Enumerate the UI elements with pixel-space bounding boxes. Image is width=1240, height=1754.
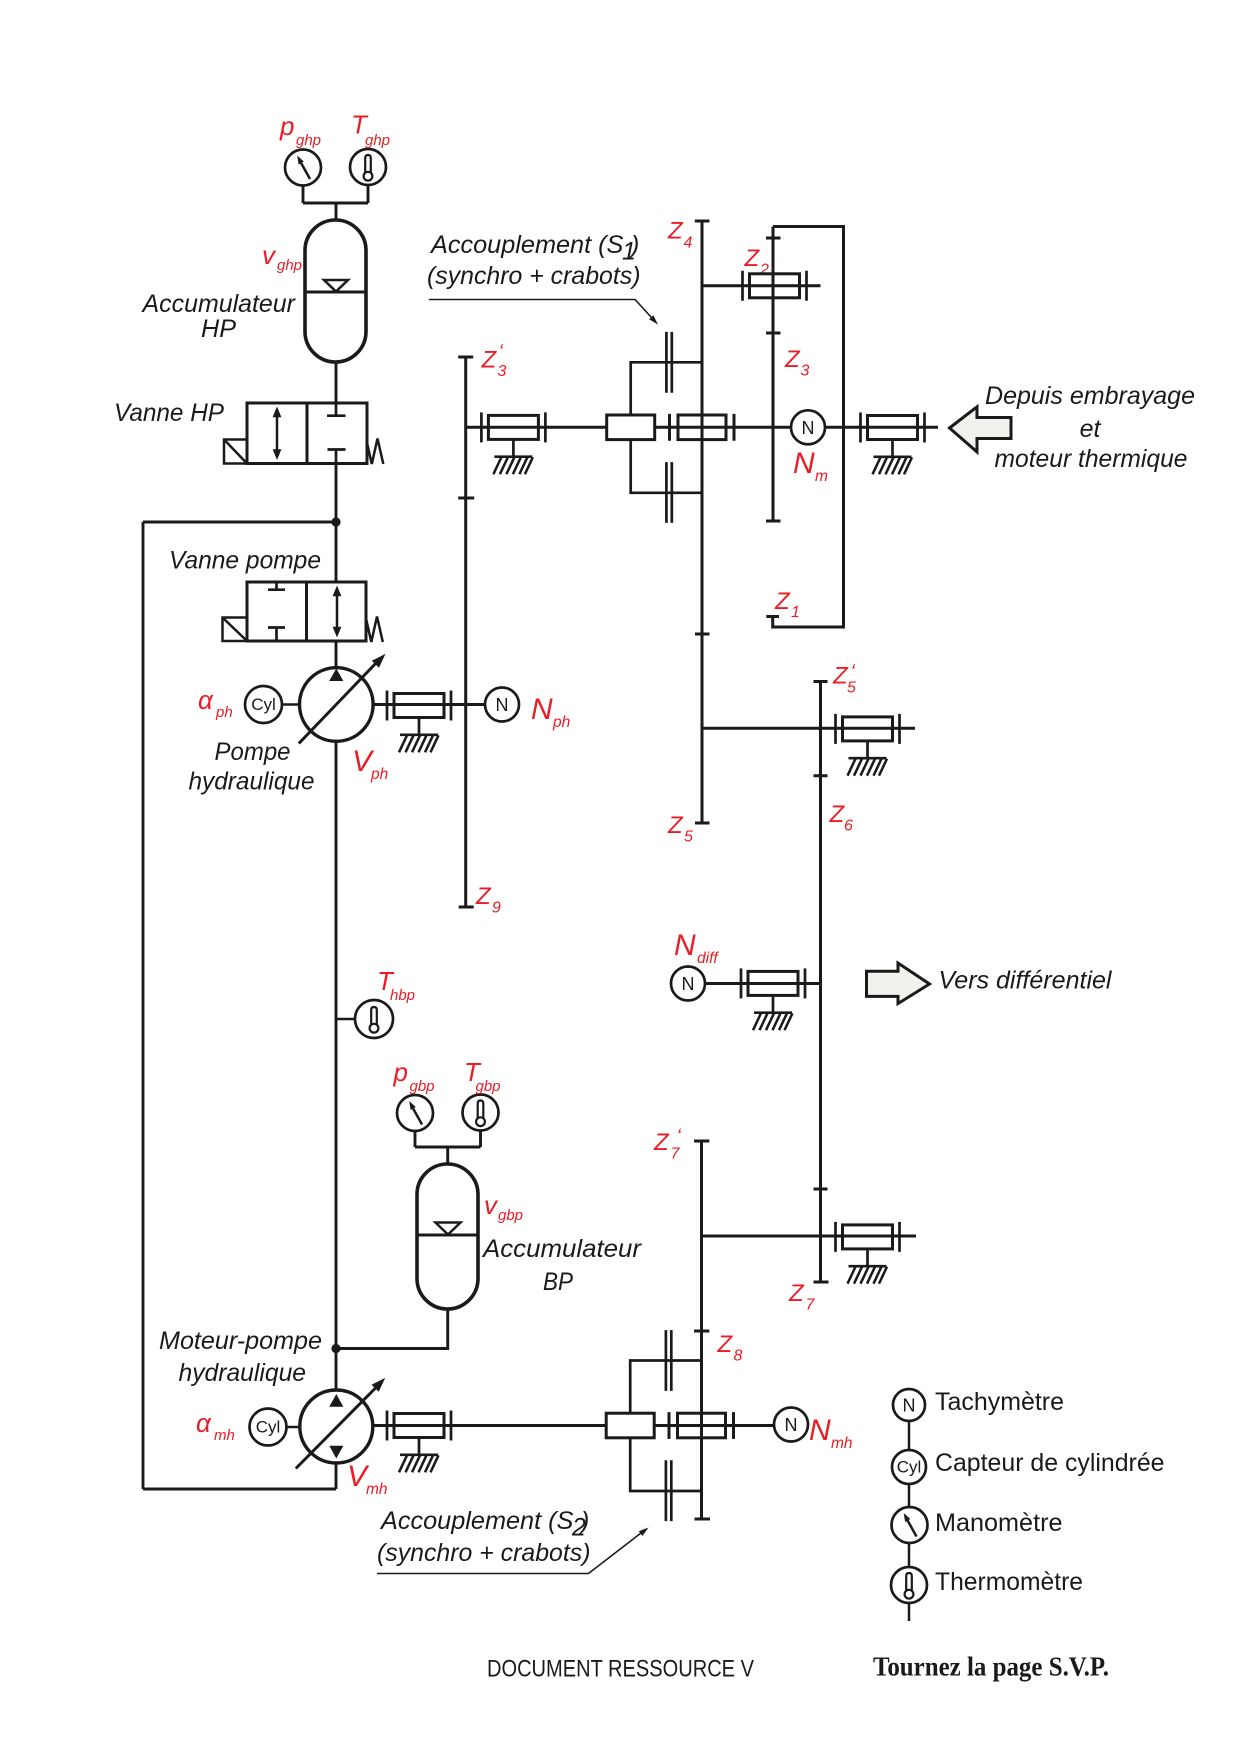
svg-text:Z: Z [744,245,761,272]
wire bypass left vertical [142,522,145,1489]
svg-text:Z: Z [475,883,492,910]
shaft input left segment [466,426,607,429]
svg-text:(synchro + crabots): (synchro + crabots) [427,262,641,290]
tachometer N_diff [671,929,719,1001]
svg-text:6: 6 [844,818,853,835]
bearing input right [861,413,925,443]
svg-text:N: N [809,1414,831,1447]
shaft through S1 to N_m [655,426,792,429]
legend sensor Cyl [892,1449,1165,1484]
svg-text:‘: ‘ [499,341,504,363]
svg-text:ghp: ghp [365,132,390,149]
svg-text:Moteur-pompe: Moteur-pompe [159,1327,322,1355]
svg-text:mh: mh [366,1481,388,1498]
ground input left bearing [493,440,533,475]
accumulator BP v_gbp [417,1164,643,1309]
arrow input Depuis embrayage [950,382,1196,473]
thermometer T_gbp [463,1057,501,1131]
accumulator HP v_ghp [141,220,366,362]
svg-text:moteur thermique: moteur thermique [995,445,1188,473]
pump Pompe hydraulique V_ph [189,654,389,796]
bearing pump shaft [387,691,451,721]
svg-text:2: 2 [759,262,769,279]
svg-text:m: m [815,468,828,485]
svg-text:Accumulateur: Accumulateur [481,1235,643,1263]
svg-text:N: N [785,1415,798,1435]
svg-text:Vanne HP: Vanne HP [114,399,224,427]
wire junction to Vanne pompe [335,522,338,582]
svg-text:Tournez la page S.V.P.: Tournez la page S.V.P. [873,1651,1109,1682]
svg-text:Accouplement (S: Accouplement (S [429,231,624,259]
svg-text:Z: Z [667,218,684,245]
svg-text:Cyl: Cyl [897,1458,922,1477]
svg-text:8: 8 [734,1348,743,1365]
svg-text:N: N [674,929,696,962]
svg-text:mh: mh [831,1435,853,1452]
svg-text:5: 5 [684,829,693,846]
gear line Z2 Z3 [744,227,810,522]
wire gauges to accumulator BP [415,1131,481,1165]
coupling S1 synchro crabots [607,332,734,523]
svg-text:v: v [484,1190,499,1220]
svg-text:ph: ph [552,714,570,731]
svg-text:gbp: gbp [498,1207,523,1224]
svg-text:Z: Z [829,801,846,828]
coupling S2 synchro crabots [606,1330,733,1521]
svg-text:1: 1 [791,604,800,621]
svg-text:Z: Z [667,812,684,839]
gear Z1 bracket [766,227,843,628]
svg-text:p: p [279,111,294,141]
wire accumulator BP to junction [336,1309,448,1349]
svg-text:N: N [682,974,695,994]
svg-text:Accouplement (S: Accouplement (S [379,1507,574,1535]
svg-text:Z: Z [784,346,801,373]
svg-text:Z: Z [788,1280,805,1307]
wire motor bottom port [335,1463,338,1489]
shaft motor to S2 [373,1424,606,1427]
ground Z7 bearing [848,1249,888,1284]
legend tachometer [893,1388,1064,1421]
svg-text:Z: Z [481,347,498,374]
motor-pump Moteur-pompe hydraulique V_mh [159,1327,388,1498]
wire gauges to accumulator HP [303,185,368,220]
svg-text:Thermomètre: Thermomètre [935,1568,1083,1596]
svg-text:Vanne pompe: Vanne pompe [169,547,321,575]
svg-text:Z: Z [774,588,791,615]
shaft Z5p level [702,727,915,730]
svg-text:Pompe: Pompe [215,738,291,766]
svg-text:Cyl: Cyl [256,1418,281,1437]
thermometer T_hbp [336,966,415,1038]
tachometer N_m [791,410,828,485]
svg-text:gbp: gbp [410,1078,435,1095]
svg-text:N: N [793,447,815,480]
svg-text:7: 7 [806,1297,816,1314]
svg-text:Depuis embrayage: Depuis embrayage [985,382,1195,410]
tachometer N_mh [774,1408,853,1453]
wire Vanne HP to junction [335,464,338,523]
svg-text:hydraulique: hydraulique [189,768,315,796]
svg-text:Cyl: Cyl [251,695,276,714]
svg-text:BP: BP [543,1268,573,1296]
wire bypass bottom [143,1488,336,1491]
svg-text:α: α [198,685,214,715]
legend manometer [892,1507,1063,1543]
svg-text:ghp: ghp [277,257,302,274]
svg-text:Manomètre: Manomètre [935,1509,1063,1537]
svg-text:4: 4 [684,235,693,252]
tachometer N_ph [485,688,570,732]
bearing N_diff shaft [741,968,805,998]
shaft N_diff [705,982,821,985]
svg-text:9: 9 [492,900,501,917]
label coupling S2 [377,1507,649,1574]
svg-text:‘: ‘ [851,661,856,683]
svg-text:Z: Z [717,1331,734,1358]
sensor Cyl pump [198,685,300,723]
svg-text:gbp: gbp [476,1078,501,1095]
svg-text:N: N [531,693,553,726]
svg-text:α: α [196,1408,212,1438]
legend stem wires [908,1421,911,1621]
ground Z5p bearing [848,741,888,776]
svg-text:Z: Z [653,1129,670,1156]
gear line Z7p Z8 [653,1126,743,1520]
manometer p_gbp [393,1057,435,1131]
svg-text:Capteur de cylindrée: Capteur de cylindrée [935,1449,1165,1477]
bearing input left [481,412,545,442]
svg-text:3: 3 [801,363,810,380]
bearing Z2 hub [743,271,807,301]
shaft S2 to N_mh [655,1424,775,1427]
svg-text:N: N [496,695,509,715]
pipe pump to motor-pump [335,741,338,1390]
svg-text:ghp: ghp [296,132,321,149]
svg-text:7: 7 [671,1146,681,1163]
shaft pump to N_ph [373,703,484,706]
svg-text:Vers différentiel: Vers différentiel [939,967,1113,995]
svg-text:diff: diff [697,950,719,967]
svg-text:DOCUMENT RESSOURCE V: DOCUMENT RESSOURCE V [487,1656,754,1683]
svg-text:ph: ph [370,766,388,783]
svg-text:(synchro + crabots): (synchro + crabots) [377,1539,591,1567]
bearing motor shaft [387,1411,451,1441]
thermometer T_ghp [350,110,390,186]
svg-text:p: p [393,1057,408,1087]
manometer p_ghp [279,111,321,186]
svg-text:et: et [1080,415,1102,443]
node junction BP [331,1344,340,1353]
svg-text:ph: ph [215,704,233,721]
shaft N_m to input [825,426,939,429]
shaft Z2 hub link [702,284,821,287]
node junction HP bypass [331,517,340,526]
ground motor bearing [399,1438,439,1473]
arrow output Vers differentiel [867,963,1113,1004]
svg-text:hydraulique: hydraulique [179,1359,307,1387]
ground N_diff bearing [753,996,793,1030]
wire accumulator to Vanne HP [335,362,338,403]
valve Vanne pompe [169,547,383,643]
ground input right bearing [873,440,913,475]
svg-text:mh: mh [214,1427,235,1444]
gear line Z5p Z6 Z7 [788,661,856,1314]
shaft Z7 level [702,1235,917,1238]
valve Vanne HP [114,399,383,464]
wire Vanne pompe to pump [335,641,338,669]
svg-text:hbp: hbp [390,987,415,1004]
gear line Z4 Z5 [667,218,710,846]
svg-text:N: N [802,418,815,438]
sensor Cyl motor [196,1408,300,1446]
svg-text:‘: ‘ [677,1126,682,1148]
ground pump bearing [399,718,439,753]
svg-text:N: N [903,1396,916,1416]
bearing Z7 shaft [836,1222,900,1252]
svg-text:v: v [262,240,277,270]
label coupling S1 [427,231,658,325]
legend thermometer [891,1567,1083,1603]
svg-text:Tachymètre: Tachymètre [935,1388,1064,1416]
svg-text:3: 3 [498,363,507,380]
svg-text:HP: HP [201,315,236,343]
wire bypass left [143,521,336,524]
bearing Z5p shaft [836,714,900,744]
gear line Z3p Z9 [458,341,506,917]
svg-text:Accumulateur: Accumulateur [141,290,297,318]
